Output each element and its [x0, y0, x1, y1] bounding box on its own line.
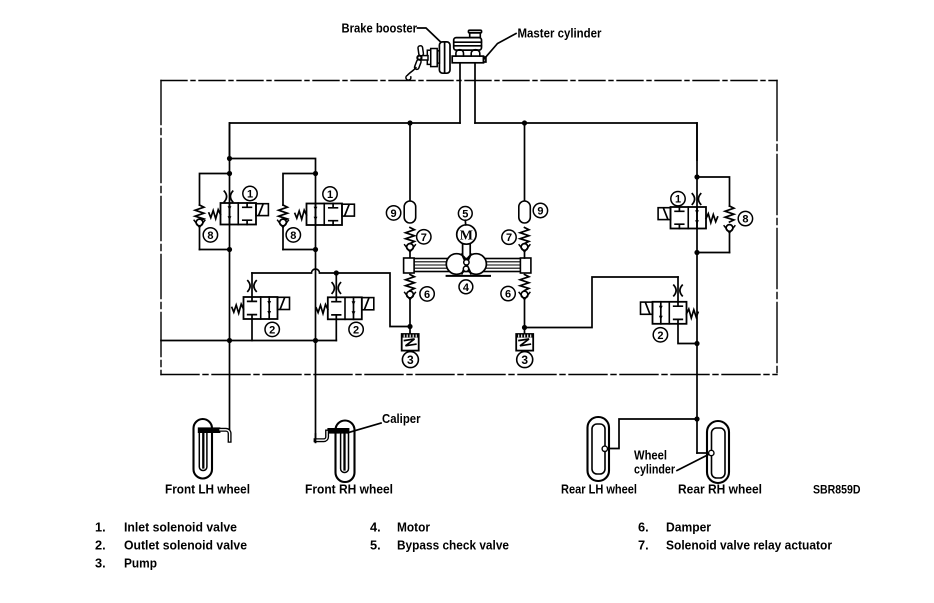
- master cylinder body: [452, 56, 486, 63]
- orifice above front LH outlet valve: [248, 281, 256, 292]
- wire: bypass loop of front LH inlet valve: [200, 174, 230, 206]
- svg-text:Bypass check valve: Bypass check valve: [397, 538, 509, 553]
- node: rear bypass bottom: [694, 250, 699, 255]
- leader: wheel cylinder label: [677, 455, 709, 471]
- outlet solenoid valve 2 (front RH): [316, 297, 374, 319]
- pump piston circle left: [446, 254, 467, 275]
- wire: left accumulator drop: [409, 123, 411, 201]
- svg-text:cylinder: cylinder: [634, 463, 675, 477]
- label circle 2 (front RH outlet valve): [349, 322, 363, 336]
- label circle 2 (front LH outlet valve): [265, 322, 279, 336]
- wire: front LH main line: [229, 123, 231, 434]
- svg-text:6.: 6.: [638, 520, 649, 535]
- rear RH wheel port: [709, 450, 714, 455]
- node: front RH wheel line tap: [313, 338, 318, 343]
- svg-text:Rear LH wheel: Rear LH wheel: [561, 483, 637, 497]
- svg-text:8: 8: [207, 230, 213, 242]
- svg-text:Inlet solenoid valve: Inlet solenoid valve: [124, 520, 237, 535]
- node: right pump junction: [522, 325, 527, 330]
- orifice above rear outlet valve: [674, 285, 682, 296]
- wire: rear bypass loop: [697, 177, 730, 206]
- wire: right pump to rear outlet valve: [525, 277, 679, 328]
- booster push rod: [422, 56, 429, 60]
- inlet solenoid valve 1 (front LH): [209, 203, 269, 225]
- svg-text:Front LH wheel: Front LH wheel: [165, 483, 250, 497]
- svg-text:Caliper: Caliper: [382, 412, 421, 426]
- wire: return line to left boundary: [161, 340, 336, 342]
- node: left accumulator branch on top line: [407, 120, 412, 125]
- check valve 8 spring (rear bypass): [725, 206, 734, 222]
- svg-text:9: 9: [537, 206, 543, 218]
- pump end block right: [520, 258, 531, 273]
- pump end block left: [404, 258, 415, 273]
- front LH wheel body: [194, 419, 213, 479]
- node: rear bypass top: [694, 174, 699, 179]
- check valve 8 spring (front LH bypass): [195, 205, 204, 221]
- front RH wheel rotor line: [343, 434, 345, 470]
- wire: outlet valve front LH drop: [251, 273, 253, 297]
- node: outlet valve 2 front RH tap: [334, 270, 339, 275]
- svg-text:5: 5: [462, 208, 468, 220]
- label circle 4 (motor): [459, 280, 473, 294]
- wire: rear outlet valve to main line: [678, 324, 697, 344]
- inlet solenoid valve 1 (rear, mirrored): [658, 207, 718, 229]
- wire: right pump suction drop: [524, 298, 526, 334]
- leader: master cylinder label: [485, 34, 517, 59]
- rear LH wheel cylinder box: [592, 424, 605, 474]
- outer dash-dot boundary rectangle: top: [161, 80, 777, 82]
- leader: caliper label: [349, 423, 381, 433]
- wire: outlet valves common line to pump: [252, 269, 410, 327]
- node: right accumulator branch on top line: [522, 120, 527, 125]
- pump eccentric cross: [462, 254, 471, 273]
- svg-text:Pump: Pump: [124, 556, 157, 571]
- inner circuit top line, right segment: [475, 123, 697, 160]
- label circle 7 (right): [502, 230, 516, 244]
- svg-text:Master cylinder: Master cylinder: [518, 27, 602, 41]
- svg-text:1: 1: [675, 194, 681, 206]
- ground base line under pump: [447, 275, 490, 277]
- check valve 8 ball (front LH bypass): [194, 219, 205, 227]
- label circle 3 (left pump): [402, 352, 418, 368]
- master cylinder reservoir: [454, 38, 482, 51]
- svg-text:1: 1: [247, 189, 253, 201]
- svg-text:Front RH wheel: Front RH wheel: [305, 483, 393, 497]
- svg-text:2: 2: [269, 324, 275, 336]
- orifice above front RH outlet valve: [332, 283, 340, 294]
- front LH wheel inner slot: [199, 430, 207, 471]
- label circle 6 (left): [420, 287, 434, 301]
- check ball 7 (right): [519, 244, 530, 252]
- outer dash-dot boundary rectangle: bottom: [161, 374, 777, 376]
- wire: right accumulator drop: [524, 123, 526, 201]
- label circle 1 (front LH inlet valve): [243, 186, 257, 200]
- leader: brake booster label: [418, 28, 441, 42]
- svg-text:Solenoid valve relay actuator: Solenoid valve relay actuator: [666, 538, 832, 553]
- check ball 6 (right): [519, 291, 530, 299]
- spring 6 (right): [520, 275, 529, 291]
- check valve 8 ball (rear bypass): [724, 225, 735, 233]
- reservoir port dome right: [471, 50, 480, 56]
- node: branch front RH: [227, 156, 232, 161]
- label circle 6 (right): [501, 286, 515, 300]
- wire: bypass loop of front RH inlet valve: [283, 174, 316, 206]
- svg-text:8: 8: [290, 230, 296, 242]
- label circle 7 (left): [417, 230, 431, 244]
- label circle 8 (front LH bypass): [203, 228, 217, 242]
- orifice above front LH inlet valve: [224, 191, 232, 202]
- wire: ball to pump block (left): [409, 251, 411, 259]
- booster cable hook: [406, 68, 416, 80]
- label circle 8 (front RH bypass): [286, 228, 300, 242]
- front LH caliper: [198, 427, 221, 433]
- spring 6 (left): [406, 275, 415, 291]
- reservoir port dome left: [456, 50, 464, 56]
- inlet solenoid valve 1 (front RH): [295, 204, 355, 226]
- svg-text:Motor: Motor: [397, 520, 430, 535]
- booster clevis lever: [414, 46, 424, 70]
- label circle 8 (rear bypass): [738, 211, 752, 225]
- svg-text:4.: 4.: [370, 520, 381, 535]
- brake booster main shell: [439, 42, 450, 73]
- reservoir filler cap: [468, 30, 481, 37]
- svg-text:1: 1: [327, 189, 333, 201]
- svg-text:6: 6: [505, 289, 511, 301]
- label circle 3 (right pump): [517, 352, 533, 368]
- front RH caliper: [327, 428, 349, 434]
- svg-text:3: 3: [521, 353, 528, 367]
- front RH wheel body: [336, 421, 355, 483]
- svg-text:1.: 1.: [95, 520, 106, 535]
- label circle 1 (front RH inlet valve): [323, 187, 337, 201]
- check valve 8 spring (front RH bypass): [279, 205, 288, 221]
- motor circle M: [457, 225, 476, 244]
- svg-text:5.: 5.: [370, 538, 381, 553]
- damper capsule 9 (left): [404, 201, 416, 223]
- pump piston circle right: [466, 254, 487, 275]
- node: pump suction junction: [407, 324, 412, 329]
- svg-text:2: 2: [353, 324, 359, 336]
- orifice above rear inlet valve: [692, 194, 700, 205]
- master cylinder right outlet pipe: [474, 63, 476, 123]
- svg-text:7: 7: [506, 232, 512, 244]
- node: rear wheel branch: [694, 416, 699, 421]
- outer dash-dot boundary rectangle: right: [776, 81, 778, 375]
- svg-text:SBR859D: SBR859D: [813, 485, 861, 497]
- node: bypass bottom RH: [313, 247, 318, 252]
- node: front LH wheel line tap: [227, 338, 232, 343]
- label circle 9 (right): [533, 203, 547, 217]
- spring 7 (right): [520, 228, 529, 244]
- wire: branch to front RH valve: [230, 159, 316, 204]
- check ball 6 (left): [405, 291, 416, 299]
- wire: label 5 stem: [464, 220, 466, 225]
- svg-text:8: 8: [742, 214, 748, 226]
- node: bypass top RH: [313, 171, 318, 176]
- svg-text:M: M: [460, 229, 473, 244]
- rear LH wheel body: [588, 417, 610, 481]
- wire: ball to pump block (right): [524, 251, 526, 259]
- svg-text:3.: 3.: [95, 556, 106, 571]
- svg-text:2: 2: [657, 330, 663, 342]
- rear LH wheel port: [602, 446, 607, 451]
- svg-text:6: 6: [424, 289, 430, 301]
- front RH wheel inner slot: [341, 431, 349, 473]
- front LH wheel rotor line: [202, 433, 204, 468]
- label circle 2 (rear outlet valve): [653, 328, 667, 342]
- front RH caliper pipe elbow: [316, 432, 328, 441]
- motor shaft: [463, 244, 471, 255]
- booster second shell: [427, 49, 439, 67]
- damper capsule 9 (right): [519, 201, 531, 223]
- master cylinder left outlet pipe: [459, 63, 461, 123]
- node: bypass top LH: [227, 171, 232, 176]
- label circle 1 (rear inlet valve): [671, 192, 685, 206]
- node: bypass bottom LH: [227, 247, 232, 252]
- outlet solenoid valve 2 (rear, mirrored): [641, 302, 699, 324]
- rear RH wheel body: [707, 421, 729, 483]
- svg-text:2.: 2.: [95, 538, 106, 553]
- front LH caliper pipe elbow: [220, 430, 230, 441]
- check ball 7 (left): [405, 244, 416, 252]
- inner circuit top line, left segment: [230, 123, 461, 160]
- svg-text:3: 3: [407, 353, 414, 367]
- svg-text:Wheel: Wheel: [634, 449, 667, 463]
- pump crankcase bar: [414, 259, 521, 272]
- svg-text:Brake booster: Brake booster: [342, 22, 418, 36]
- outlet solenoid valve 2 (front LH): [232, 297, 290, 319]
- wire: rear wheels branch: [607, 419, 697, 449]
- node: rear outlet tap: [694, 341, 699, 346]
- spring 7 (left): [406, 228, 415, 244]
- check valve 8 ball (front RH bypass): [278, 219, 289, 227]
- wire: front LH outlet valve drop to return line: [251, 319, 253, 341]
- wire: rear main line: [696, 123, 698, 453]
- wire: rear outlet valve drop: [677, 277, 679, 302]
- svg-text:Rear RH wheel: Rear RH wheel: [678, 483, 762, 497]
- wire: rear RH wheel stub: [697, 452, 709, 454]
- svg-text:Outlet solenoid valve: Outlet solenoid valve: [124, 538, 247, 553]
- svg-text:Damper: Damper: [666, 520, 711, 535]
- label circle 9 (left): [386, 206, 400, 220]
- pump unit 3 (right): [516, 334, 533, 351]
- svg-text:7.: 7.: [638, 538, 649, 553]
- pump unit 3 (left): [402, 334, 419, 351]
- svg-text:4: 4: [463, 282, 470, 294]
- label circle 5 (bypass check valve): [458, 207, 472, 221]
- wire: front RH main line: [315, 204, 317, 443]
- svg-text:9: 9: [391, 208, 397, 220]
- outer dash-dot boundary rectangle: left: [160, 81, 162, 375]
- wire: outlet valve front RH drop: [335, 273, 337, 297]
- wire: left pump suction drop: [409, 298, 411, 334]
- svg-text:7: 7: [421, 232, 427, 244]
- wire: front RH outlet valve drop to return line: [335, 319, 337, 340]
- rear RH wheel cylinder box: [712, 428, 726, 478]
